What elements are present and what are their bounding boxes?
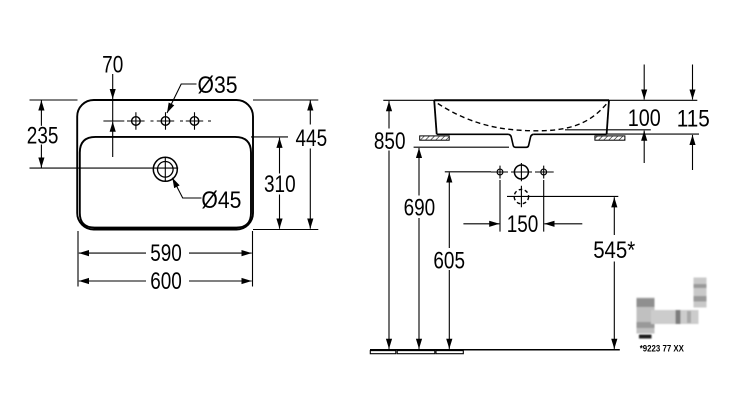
inner bottom reference line (100 dim) <box>565 129 651 131</box>
svg-text:600: 600 <box>150 268 182 295</box>
svg-text:590: 590 <box>150 240 182 267</box>
faucet hole 3 <box>190 117 199 126</box>
floor section box 3 <box>436 351 463 354</box>
690 reference line <box>414 146 509 148</box>
logo horizontal bar <box>651 310 699 324</box>
dim 850 line <box>388 101 390 128</box>
svg-text:605: 605 <box>433 248 465 275</box>
front view small hole right <box>541 169 547 175</box>
310 top reference line <box>251 136 288 138</box>
dim 235 line <box>40 100 42 126</box>
dim 445 line <box>309 100 311 124</box>
Ø45 leader arrow <box>172 178 201 198</box>
countertop hatch right <box>595 136 625 140</box>
445/310 bottom reference line <box>253 229 318 231</box>
drain stub <box>509 134 534 147</box>
svg-text:850: 850 <box>374 128 406 155</box>
svg-text:235: 235 <box>27 123 59 150</box>
center vertical dash line <box>520 163 522 207</box>
svg-text:545*: 545* <box>593 237 635 264</box>
side view right wall <box>607 100 609 134</box>
dim 590 line <box>79 252 146 254</box>
side view rim line with extensions <box>383 99 697 101</box>
dim 545* line <box>613 197 615 235</box>
dim 605 line <box>448 172 450 248</box>
235 top reference line <box>30 99 78 101</box>
front view hole centerline <box>491 171 554 173</box>
drain horizontal centerline / 235 reference <box>30 167 179 169</box>
side view bottom line <box>437 133 607 135</box>
dim 150 arrows <box>463 223 499 225</box>
washbasin top view: outer rim <box>77 100 253 230</box>
svg-text:310: 310 <box>264 171 296 198</box>
svg-text:*9223 77 XX: *9223 77 XX <box>640 342 685 353</box>
dashed drain circle front view <box>514 189 528 203</box>
svg-text:100: 100 <box>628 105 661 132</box>
floor line <box>370 349 620 351</box>
Villeroy & Boch logo (pixelated) <box>637 278 707 339</box>
445 top reference line <box>253 99 318 101</box>
605 reference line <box>445 171 491 173</box>
dim 70 arrows <box>112 74 114 99</box>
dim 690 line <box>418 148 420 196</box>
floor section box 1 <box>370 351 396 354</box>
floor section box 2 <box>397 351 435 354</box>
drain vertical centerline <box>164 158 166 181</box>
svg-text:115: 115 <box>677 105 710 132</box>
faucet hole centerline <box>103 120 211 122</box>
logo left block <box>637 298 655 334</box>
faucet hole 2 <box>161 117 170 126</box>
washbasin top view: inner basin edge <box>80 137 251 228</box>
hole extension lines down <box>500 180 544 232</box>
svg-text:445: 445 <box>296 125 328 152</box>
svg-text:Ø35: Ø35 <box>198 72 238 99</box>
dim 115 arrows <box>692 65 694 100</box>
545 reference line through drain <box>507 195 618 197</box>
front view hole vertical ticks <box>500 166 544 179</box>
drain hole inner circle <box>158 162 174 178</box>
svg-text:690: 690 <box>404 195 436 222</box>
faucet hole tick verticals <box>136 112 195 130</box>
dim 100 arrows <box>643 65 645 100</box>
drain hole outer circle <box>153 157 177 181</box>
logo black bar <box>639 335 652 339</box>
dim 310 line <box>279 138 281 174</box>
svg-text:150: 150 <box>507 211 539 238</box>
bottom width extension lines <box>77 231 79 287</box>
dim 600 line <box>79 280 146 282</box>
front view small hole left <box>497 169 503 175</box>
dashed inner basin profile <box>438 104 607 131</box>
Ø35 leader arrow <box>167 84 197 113</box>
side view left wall <box>434 100 437 134</box>
front view faucet hole center <box>514 165 528 179</box>
faucet hole 1 <box>132 117 141 126</box>
svg-text:Ø45: Ø45 <box>201 187 241 214</box>
bottom reference extension to 115 <box>607 133 699 135</box>
countertop hatch left <box>420 136 450 140</box>
